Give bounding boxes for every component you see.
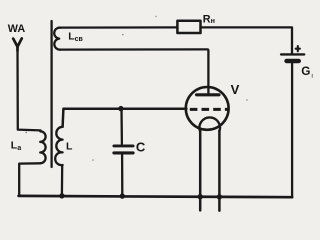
wire: La bottom lead to ground bus (19, 163, 40, 195)
svg-text:WA: WA (8, 23, 26, 35)
wire: L bottom lead down to bus (61, 165, 64, 196)
battery G long positive plate (281, 53, 304, 55)
wire: L top lead up and grid wire to tube (63, 109, 187, 127)
inductor Lsv (feedback coil, 2 bumps left, hairpin loop) (54, 28, 60, 50)
triode V envelope (glass bulb circle) (186, 87, 229, 130)
junction dot: bus / left leg (198, 194, 203, 199)
core / coupling axis line (50, 21, 52, 167)
battery G short negative plate (287, 59, 299, 63)
resistor Rn (177, 21, 200, 33)
svg-text:C: C (136, 140, 146, 155)
inductor L (tank coil, 3 bumps left) (55, 127, 62, 165)
wire: antenna lead down to La top (18, 50, 41, 131)
antenna WA symbol (13, 38, 22, 50)
junction dot: grid wire / C top (118, 106, 123, 111)
capacitor C bottom plate (114, 151, 133, 154)
svg-text:V: V (231, 82, 240, 97)
wire: capacitor bottom lead (121, 154, 124, 195)
junction dot: bus / C bottom (120, 193, 125, 198)
inductor La (antenna coil, 3 bumps right) (40, 131, 45, 163)
svg-text:L: L (66, 140, 73, 152)
filament leg left (through bus) (199, 131, 202, 211)
grid (dashed electrode) (190, 108, 230, 111)
cathode / filament arch (199, 117, 220, 131)
capacitor C top plate (114, 144, 133, 147)
svg-text:G: G (301, 64, 310, 78)
junction dot: bus / right leg (217, 194, 222, 199)
ground bus wire (bottom rail) (19, 196, 293, 197)
junction dot: bus / L bottom (59, 193, 64, 198)
wire: resistor to battery plus (201, 27, 293, 53)
wire: battery negative down to bus (291, 63, 293, 197)
scan specks (noise) (25, 16, 313, 161)
wire: Lsv top conductor to resistor (60, 26, 178, 29)
wire: capacitor top lead (120, 109, 123, 145)
anode plate bar (197, 93, 220, 96)
wire: Lsv bottom conductor to anode lead (60, 49, 209, 93)
plus sign of battery (296, 46, 300, 51)
filament leg right (through bus) (218, 131, 221, 211)
